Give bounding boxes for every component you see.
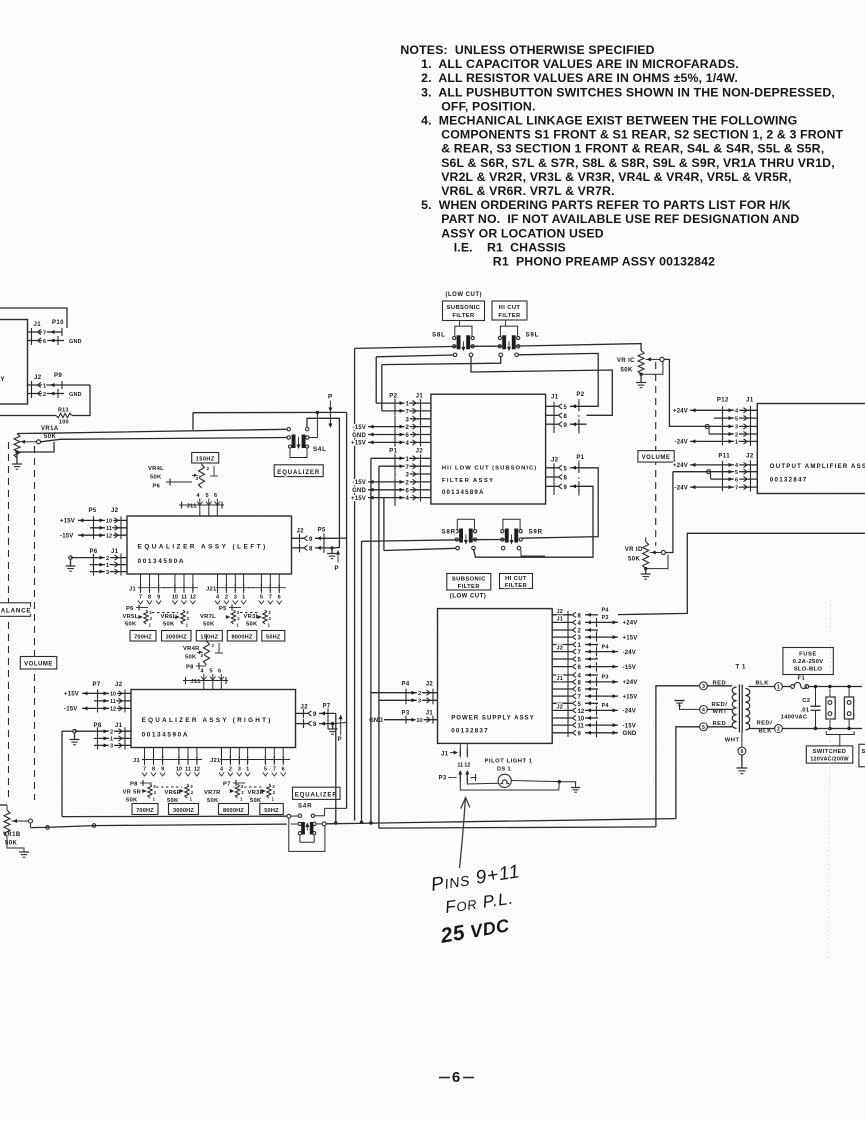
potentiometer VR1C 50K — [617, 351, 664, 375]
potentiometer VR3L 50K — [244, 610, 272, 628]
svg-text:SUBSONIC: SUBSONIC — [447, 305, 481, 311]
potentiometer VR6R 50K — [165, 784, 194, 804]
svg-text:J1: J1 — [441, 752, 449, 758]
ground pilot light — [571, 788, 580, 793]
svg-text:FILTER: FILTER — [498, 313, 521, 319]
svg-text:J1: J1 — [557, 676, 564, 682]
svg-text:P4: P4 — [402, 682, 410, 688]
terminal 4 RED/WHT — [700, 702, 733, 715]
wire S9R lower contacts — [521, 550, 545, 556]
potentiometer VR1B 50K — [0, 805, 33, 847]
potentiometer VR4L 50K — [148, 463, 218, 488]
label 700HZ — [130, 631, 156, 642]
ground eq left input — [66, 556, 76, 571]
svg-text:+15V: +15V — [351, 441, 366, 447]
wire bus to terminal 3 — [656, 686, 700, 827]
wire riser from eq-right row 9 down to bottom bus — [334, 713, 337, 824]
svg-text:10: 10 — [172, 595, 178, 601]
svg-text:VR6L & VR6R. VR7L & VR7R.: VR6L & VR6R. VR7L & VR7R. — [441, 184, 614, 198]
svg-text:P5: P5 — [318, 528, 326, 534]
scan crease dotted line — [828, 600, 831, 960]
svg-text:J2: J2 — [746, 454, 754, 460]
connector J11 pins 4 5 6 (top of eq left) — [179, 493, 224, 516]
svg-text:VR4R: VR4R — [183, 646, 200, 652]
svg-text:00132847: 00132847 — [770, 477, 808, 484]
dashed linkage between trimmer pots (right eq) — [156, 786, 182, 788]
svg-text:10: 10 — [417, 718, 423, 724]
svg-text:P: P — [335, 566, 339, 572]
switch S4R — [298, 803, 316, 835]
wire S9L to VR1C — [514, 344, 641, 351]
wire subsonic filter label to S8L — [460, 320, 506, 326]
wire P11 row6 tap — [707, 470, 711, 479]
svg-text:WHT: WHT — [725, 738, 740, 744]
wire bottom bus lower (to transformer terminal 5) — [379, 827, 656, 828]
svg-text:6: 6 — [452, 1069, 460, 1086]
svg-text:12: 12 — [110, 707, 116, 713]
potentiometer VR6L 50K — [161, 610, 190, 628]
mechanical linkage dashed line A — [8, 442, 10, 800]
svg-text:-24V: -24V — [623, 709, 636, 715]
svg-text:6: 6 — [214, 493, 217, 499]
equalizer assy (right) box — [131, 690, 296, 748]
wire VR1A top to S4L (upper) — [17, 429, 287, 433]
svg-text:VR ID: VR ID — [625, 547, 643, 553]
svg-text:P2: P2 — [389, 393, 397, 399]
mechanical linkage dashed (VR1C to VR1D) — [655, 362, 657, 546]
wire VR1C wiper to P12 row 3 — [664, 359, 731, 428]
svg-text:P4: P4 — [602, 644, 610, 650]
svg-text:VR2L & VR2R, VR3L & VR3R, VR4L: VR2L & VR2R, VR3L & VR3R, VR4L & VR4R, V… — [441, 170, 791, 184]
svg-text:2: 2 — [106, 556, 109, 562]
svg-text:50K: 50K — [125, 622, 137, 628]
svg-text:EQUALIZER ASSY (RIGHT): EQUALIZER ASSY (RIGHT) — [142, 717, 273, 724]
wire pilot light circuit — [460, 778, 575, 791]
svg-text:10: 10 — [578, 717, 585, 723]
wire VR1D bottom loop — [644, 555, 668, 571]
svg-text:7: 7 — [269, 595, 272, 601]
svg-text:GND: GND — [352, 433, 366, 439]
svg-text:T 1: T 1 — [736, 665, 747, 671]
svg-text:FILTER ASSY: FILTER ASSY — [442, 478, 495, 484]
svg-text:P4: P4 — [602, 703, 610, 709]
svg-text:J1: J1 — [746, 398, 754, 404]
svg-text:S6L & S6R, S7L & S7R, S8L & S8: S6L & S6R, S7L & S7R, S8L & S8R, S9L & S… — [441, 156, 835, 170]
wire into eq right input — [62, 731, 73, 816]
switch lower contacts S8L S9L — [453, 353, 518, 357]
label 3000HZ (right eq) — [169, 804, 199, 815]
svg-text:2: 2 — [110, 730, 113, 736]
svg-text:6: 6 — [218, 669, 221, 675]
svg-text:VR6L: VR6L — [161, 614, 177, 620]
wire S8L lower-left to loop — [376, 355, 453, 403]
svg-text:P3: P3 — [602, 615, 609, 621]
svg-text:2: 2 — [43, 392, 46, 398]
handwritten arrow to pilot light pins — [460, 798, 470, 869]
svg-text:& REAR, S3 SECTION 1 FRONT & R: & REAR, S3 SECTION 1 FRONT & REAR, S4L &… — [441, 142, 824, 156]
svg-text:P2: P2 — [576, 392, 584, 398]
connector P4/J2 rows 2 3 (power supply left) — [371, 682, 438, 705]
svg-text:P5: P5 — [89, 508, 97, 514]
svg-text:+15V: +15V — [623, 635, 638, 641]
svg-text:1400VAC: 1400VAC — [781, 714, 808, 720]
svg-text:J11: J11 — [187, 504, 198, 510]
svg-text:1: 1 — [242, 595, 245, 601]
ground VR1C — [636, 374, 646, 388]
svg-text:700HZ: 700HZ — [134, 635, 152, 641]
svg-text:VR7L: VR7L — [200, 614, 216, 620]
svg-text:-15V: -15V — [353, 480, 366, 486]
svg-text:5: 5 — [735, 416, 738, 422]
node P (above S4L) — [328, 394, 333, 429]
svg-text:11: 11 — [578, 724, 585, 730]
svg-text:11: 11 — [457, 763, 463, 769]
mechanical linkage dashed line B — [34, 446, 36, 800]
connector J21 pins (eq left bottom) — [206, 574, 286, 604]
svg-text:HI CUT: HI CUT — [505, 576, 527, 582]
wire VR1A wiper to S4L (lower) — [41, 438, 287, 442]
potentiometer VR1D 50K — [625, 542, 666, 569]
svg-text:J2: J2 — [557, 609, 564, 615]
svg-text:EQUALIZER: EQUALIZER — [295, 793, 338, 799]
svg-text:7: 7 — [143, 767, 146, 773]
wire S8L to S9L — [468, 345, 504, 347]
connector J1/P10 pin 7 — [28, 320, 65, 337]
resistor R13 100 — [56, 408, 72, 426]
svg-text:+15V: +15V — [351, 496, 366, 502]
svg-text:S9R: S9R — [529, 529, 543, 536]
connector J1/P2 rows 5 8 9 (filter, upper right) — [546, 392, 587, 434]
svg-text:P10: P10 — [52, 320, 64, 326]
svg-text:P3: P3 — [402, 711, 410, 717]
svg-text:3000HZ: 3000HZ — [173, 808, 194, 814]
svg-text:12: 12 — [190, 595, 196, 601]
svg-text:120VAC/200W: 120VAC/200W — [810, 757, 849, 763]
terminal 3 RED — [700, 681, 733, 691]
svg-text:VR3L: VR3L — [244, 614, 260, 620]
dashed linkage P3/P4 column — [596, 618, 598, 730]
svg-text:1: 1 — [735, 440, 738, 446]
svg-text:1: 1 — [246, 767, 249, 773]
svg-text:6: 6 — [282, 767, 285, 773]
svg-text:10: 10 — [176, 767, 182, 773]
svg-text:BALANCE: BALANCE — [0, 608, 31, 615]
svg-text:150HZ: 150HZ — [200, 635, 218, 641]
svg-text:8000HZ: 8000HZ — [231, 635, 252, 641]
svg-text:J21: J21 — [210, 758, 221, 764]
svg-text:00134590A: 00134590A — [138, 558, 185, 565]
svg-text:3: 3 — [110, 744, 113, 750]
svg-text:FILTER: FILTER — [458, 584, 481, 590]
svg-text:(LOW CUT): (LOW CUT) — [450, 594, 487, 600]
label 150HZ (bottom row) — [196, 631, 222, 642]
connector P3 (pilot light) — [439, 770, 477, 782]
svg-text:3: 3 — [702, 684, 705, 690]
wire S8L lower-right to filter J1 pin 8 — [471, 357, 612, 416]
connector P2/J1 rows (filter, upper left) — [351, 393, 431, 450]
svg-text:6: 6 — [278, 595, 281, 601]
svg-text:4: 4 — [702, 708, 705, 714]
terminal 2 RED/BLK — [757, 721, 783, 735]
connector P1/J2 rows (filter, lower left) — [351, 449, 431, 506]
svg-text:J2: J2 — [111, 508, 119, 514]
potentiometer VR7R 50K — [204, 780, 245, 804]
svg-text:P: P — [328, 394, 333, 401]
svg-text:3: 3 — [196, 476, 199, 481]
label EQUALIZER (left) — [274, 465, 323, 477]
label SUBSONIC FILTER (bottom) — [447, 574, 491, 591]
terminal 2 RED/BLK wire — [749, 728, 863, 730]
svg-text:P7: P7 — [93, 682, 101, 688]
output amplifier assy box — [757, 404, 865, 494]
svg-text:P12: P12 — [717, 398, 729, 404]
svg-text:.01: .01 — [800, 707, 810, 713]
svg-text:-15V: -15V — [353, 425, 366, 431]
svg-text:+24V: +24V — [673, 463, 688, 469]
svg-text:7: 7 — [43, 331, 46, 337]
svg-text:J1: J1 — [115, 723, 123, 729]
svg-text:-24V: -24V — [675, 440, 688, 446]
wire S4L mid rail to eq-left row 8 — [307, 418, 339, 548]
svg-text:S8L: S8L — [432, 332, 446, 339]
wire phono box top to P10 — [0, 308, 67, 328]
svg-text:S9L: S9L — [526, 332, 540, 339]
dashed linkage P11 column — [722, 465, 724, 487]
svg-text:EQUALIZER: EQUALIZER — [277, 470, 320, 476]
svg-text:8000HZ: 8000HZ — [223, 808, 244, 814]
svg-text:VR1A: VR1A — [41, 426, 59, 432]
label 700HZ (right eq) — [132, 804, 158, 815]
svg-text:1: 1 — [110, 737, 113, 743]
connector P8 tick (VR4R) — [186, 663, 206, 671]
svg-text:J1: J1 — [551, 395, 559, 401]
svg-text:50HZ: 50HZ — [266, 635, 281, 641]
svg-text:GND: GND — [623, 731, 637, 737]
svg-text:11: 11 — [181, 595, 187, 601]
svg-text:P7: P7 — [223, 782, 231, 788]
connector P6 tick (VR4L) — [153, 479, 193, 490]
svg-text:700HZ: 700HZ — [136, 808, 154, 814]
svg-text:50K: 50K — [185, 655, 197, 661]
svg-text:J2: J2 — [557, 646, 564, 652]
svg-text:5. WHEN ORDERING PARTS REFER: 5. WHEN ORDERING PARTS REFER TO PARTS LI… — [421, 198, 791, 212]
label HI CUT FILTER (top) — [492, 301, 527, 320]
wire VR1C bottom loop — [639, 362, 663, 376]
label HI CUT FILTER (bottom) — [500, 574, 533, 590]
svg-text:12: 12 — [194, 767, 200, 773]
svg-text:VOLUME: VOLUME — [24, 662, 53, 668]
svg-text:3: 3 — [735, 425, 738, 431]
dashed linkage between trimmer pots (left eq) — [152, 612, 178, 614]
hi/low cut (subsonic) filter assy box — [431, 394, 546, 504]
svg-text:+24V: +24V — [623, 680, 638, 686]
svg-text:100: 100 — [59, 420, 69, 426]
wire junction S4L to lower rail — [309, 413, 317, 438]
switch S8R — [442, 519, 477, 544]
svg-text:-15V: -15V — [623, 723, 636, 729]
potentiometer VR4R 50K (above right eq) — [183, 634, 223, 665]
svg-text:P5: P5 — [219, 606, 227, 612]
svg-text:11: 11 — [185, 767, 191, 773]
connector J1 pin 6 GND — [28, 336, 82, 345]
svg-text:J1: J1 — [111, 549, 119, 555]
svg-text:J2: J2 — [426, 682, 434, 688]
svg-text:7: 7 — [273, 767, 276, 773]
wire S4R mid contacts — [291, 822, 326, 826]
label SWITCHED 120VAC/200W — [806, 746, 853, 763]
svg-text:POWER SUPPLY ASSY: POWER SUPPLY ASSY — [451, 715, 535, 722]
wire to S8R lower-left — [384, 498, 456, 551]
svg-text:VR4L: VR4L — [148, 466, 164, 472]
svg-text:1: 1 — [43, 384, 46, 390]
ground VR1D — [641, 569, 651, 580]
connector P12/J1 rows (output amp upper) — [673, 398, 757, 446]
svg-text:J1: J1 — [34, 322, 42, 328]
svg-text:6: 6 — [43, 339, 46, 345]
wire P4 row2 riser (from filter P1 pin1 down to bottom bus) — [369, 458, 372, 824]
svg-text:J2: J2 — [557, 704, 564, 710]
svg-text:11: 11 — [110, 699, 116, 705]
svg-text:RED/: RED/ — [712, 702, 728, 708]
svg-text:P9: P9 — [54, 373, 62, 379]
svg-text:10: 10 — [110, 692, 116, 698]
svg-text:DS 1: DS 1 — [497, 767, 511, 773]
svg-text:J1: J1 — [416, 393, 424, 399]
svg-text:HI CUT: HI CUT — [499, 305, 521, 311]
connector P11/J2 rows (output amp lower) — [673, 454, 757, 492]
connector P6/J1 rows 2 1 3 (eq left, left side) — [71, 549, 128, 576]
svg-text:SUBSONIC: SUBSONIC — [452, 577, 486, 583]
svg-text:FUSE: FUSE — [799, 652, 817, 658]
connector J2 pin 2 GND — [28, 389, 82, 398]
svg-text:9: 9 — [161, 767, 164, 773]
svg-text:2: 2 — [225, 595, 228, 601]
dashed linkage P12 column — [722, 410, 724, 441]
connector J1 pins 7-12 (eq right bottom) — [133, 748, 202, 777]
svg-text:J2: J2 — [34, 375, 42, 381]
connector P5/J2 rows 10 11 12 (eq left, left side) — [60, 508, 127, 540]
svg-text:00134589A: 00134589A — [442, 489, 485, 496]
potentiometer VR5R 50K — [123, 780, 157, 804]
wire P9 loop through R13 — [0, 385, 90, 416]
svg-text:J2: J2 — [301, 705, 309, 711]
svg-text:VR 5R: VR 5R — [123, 790, 142, 796]
wire bottom bus upper (VR1B wiper to transformer terminal 3) — [31, 819, 676, 830]
svg-text:2: 2 — [229, 767, 232, 773]
svg-text:J1: J1 — [557, 616, 564, 622]
connector J1 pins 11 12 (power supply bottom) — [441, 743, 470, 768]
svg-text:P8: P8 — [130, 782, 138, 788]
wire long to S9L lower-left — [382, 357, 501, 411]
svg-text:OUTPUT AMPLIFIER ASSY: OUTPUT AMPLIFIER ASSY — [770, 463, 865, 470]
svg-text:VR IC: VR IC — [617, 358, 635, 364]
svg-text:R1 PHONO PREAMP ASSY 00132842: R1 PHONO PREAMP ASSY 00132842 — [493, 255, 715, 269]
svg-text:Y: Y — [1, 376, 7, 383]
svg-text:R13: R13 — [58, 408, 69, 414]
svg-text:6: 6 — [740, 749, 743, 755]
svg-text:I.E. R1 CHASSIS: I.E. R1 CHASSIS — [454, 240, 566, 254]
svg-text:150HZ: 150HZ — [196, 457, 215, 463]
transformer T1 secondary winding — [745, 689, 749, 730]
svg-text:RED: RED — [713, 721, 727, 727]
switch lower contacts S8R S9R — [456, 546, 521, 550]
svg-text:50K: 50K — [628, 557, 640, 563]
label 8000HZ (right eq) — [219, 804, 249, 815]
page number -6- — [439, 1069, 474, 1086]
label box clipped at right edge — [859, 744, 865, 767]
wire filter J2 pin5 from S9R — [521, 468, 598, 538]
svg-text:P3: P3 — [439, 776, 447, 782]
svg-text:P3: P3 — [602, 675, 609, 681]
svg-text:GND: GND — [69, 392, 82, 398]
label 50HZ (right eq) — [260, 804, 284, 815]
svg-text:NOTES: UNLESS OTHERWISE SPECI: NOTES: UNLESS OTHERWISE SPECIFIED — [400, 43, 654, 57]
bracket to switched outlet label — [826, 731, 854, 746]
svg-text:P1: P1 — [389, 449, 397, 455]
label EQUALIZER (right) — [293, 787, 341, 799]
potentiometer VR3R 50K — [248, 784, 276, 804]
svg-text:50K: 50K — [150, 475, 162, 481]
svg-text:+15V: +15V — [623, 694, 638, 700]
svg-text:1: 1 — [777, 685, 780, 691]
svg-text:3: 3 — [234, 595, 237, 601]
svg-text:C2: C2 — [802, 698, 810, 704]
svg-text:BLK: BLK — [756, 681, 770, 687]
svg-text:FILTER: FILTER — [505, 583, 528, 589]
notes text block — [400, 43, 843, 269]
wire filter J2 pin9 to S8R lower — [474, 486, 594, 557]
svg-text:2: 2 — [212, 643, 215, 648]
svg-text:P6: P6 — [153, 484, 161, 490]
svg-text:VOLUME: VOLUME — [642, 455, 671, 461]
wire S4R released-contact loop — [300, 835, 314, 842]
wire eq-right row 9 to S4L net (vertical risers) — [355, 348, 362, 822]
terminal 5 RED — [700, 721, 733, 731]
svg-text:ASSY OR LOCATION USED: ASSY OR LOCATION USED — [441, 226, 604, 240]
svg-text:3000HZ: 3000HZ — [166, 635, 187, 641]
wire S4L top rail to eq-left row 9 and down to S4R — [332, 412, 347, 808]
svg-text:2: 2 — [777, 727, 780, 733]
wire S9L lower-right to filter J1 pin 5 — [518, 353, 598, 406]
wire P4 row3 riser — [378, 466, 380, 828]
svg-text:5: 5 — [210, 669, 213, 675]
svg-text:VR6R: VR6R — [165, 790, 182, 796]
lamp DS1 pilot light — [485, 759, 533, 788]
svg-text:EQUALIZER ASSY (LEFT): EQUALIZER ASSY (LEFT) — [138, 544, 268, 551]
label BLK — [756, 681, 770, 687]
svg-text:VR7R: VR7R — [204, 790, 221, 796]
svg-text:J2: J2 — [551, 458, 559, 464]
potentiometer VR7L 50K — [200, 605, 241, 628]
svg-text:1. ALL CAPACITOR VALUES ARE I: 1. ALL CAPACITOR VALUES ARE IN MICROFARA… — [421, 57, 739, 71]
svg-text:HI/ LOW CUT (SUBSONIC): HI/ LOW CUT (SUBSONIC) — [442, 466, 537, 472]
svg-text:2: 2 — [735, 432, 738, 438]
svg-text:5: 5 — [260, 595, 263, 601]
svg-text:P6: P6 — [126, 606, 134, 612]
svg-text:50K: 50K — [126, 798, 138, 804]
wire S4R outer loop — [289, 818, 325, 851]
svg-text:SLO-BLO: SLO-BLO — [794, 667, 823, 673]
svg-text:S: S — [862, 749, 865, 755]
svg-text:BLK: BLK — [759, 729, 773, 735]
wire left rail to S8R — [362, 540, 461, 542]
svg-text:12: 12 — [578, 709, 585, 715]
svg-text:2: 2 — [418, 691, 421, 697]
label (LOW CUT) bottom — [450, 594, 487, 600]
label VOLUME (right) — [638, 451, 674, 463]
connector J2/P7 rows 9 8 (eq right, right side) — [296, 704, 337, 729]
label 50HZ — [262, 631, 285, 642]
